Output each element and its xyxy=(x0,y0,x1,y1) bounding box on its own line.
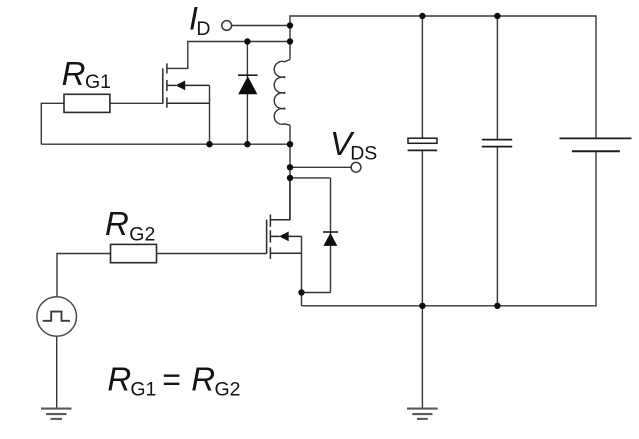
node: Q1 drain rail junction xyxy=(287,38,293,44)
wire C1 bottom lead xyxy=(421,150,423,305)
svg-text:D: D xyxy=(196,18,210,40)
node: C1 top rail junction xyxy=(419,13,425,19)
node: inductor bottom on mid rail xyxy=(287,141,293,147)
capacitor C2 xyxy=(482,140,512,147)
Q2 arrow head xyxy=(279,232,289,242)
transistor Q1 (high-side MOSFET) xyxy=(163,63,210,107)
wire top positive rail xyxy=(290,16,596,138)
node: C1 bottom rail junction xyxy=(419,303,425,309)
label VDS xyxy=(330,125,377,165)
label equation RG1 = RG2 xyxy=(107,360,240,400)
resistor RG2 xyxy=(111,244,157,262)
wire D2 anode to Q2 source node xyxy=(302,292,331,294)
node: C2 top rail junction xyxy=(494,13,500,19)
wire mid rail: switching node line xyxy=(41,143,290,145)
wire ID measurement lead xyxy=(232,25,290,27)
svg-text:R: R xyxy=(107,360,131,397)
wire Q1 drain up to rail xyxy=(167,42,290,69)
node: D2 branch junction xyxy=(287,175,293,181)
wire Q1 source down to mid rail xyxy=(209,85,211,144)
wire Q2 source down to bottom rail xyxy=(301,236,303,305)
node: Q1 source on mid rail xyxy=(206,141,212,147)
wire center ground lead xyxy=(421,306,423,408)
wire switching column (inductor bottom to Q2 drain corner) xyxy=(289,125,291,220)
svg-text:G2: G2 xyxy=(129,224,155,246)
wire pulse source to ground xyxy=(56,336,58,408)
ground (left, under pulse source) xyxy=(41,409,72,419)
svg-text:G1: G1 xyxy=(85,71,111,93)
diode D2 (Q2 body diode) xyxy=(323,178,338,293)
resistor RG1 xyxy=(64,94,110,112)
wire C1 top lead xyxy=(421,16,423,138)
wire RG2 left lead xyxy=(57,254,111,297)
svg-text:G2: G2 xyxy=(215,378,241,400)
ground (center, under bottom rail) xyxy=(407,409,438,419)
diode D1 (freewheeling diode) xyxy=(238,42,258,145)
svg-text:R: R xyxy=(62,55,86,92)
wire RG1 to Q1 gate xyxy=(110,102,163,104)
wire RG2 to Q2 gate xyxy=(157,253,267,255)
terminal VDS open circle xyxy=(351,162,361,172)
node: VDS tap junction xyxy=(287,164,293,170)
terminal ID open circle xyxy=(222,21,232,31)
label ID xyxy=(189,1,210,41)
svg-text:=: = xyxy=(162,361,181,397)
wire branch to D2 cathode xyxy=(290,177,331,179)
node: C2 bottom rail junction xyxy=(494,303,500,309)
svg-text:R: R xyxy=(105,205,129,242)
node: D1 anode on mid rail xyxy=(244,141,250,147)
capacitor C1 (electrolytic, boxed plate) xyxy=(408,138,438,150)
wire C2 bottom lead xyxy=(496,147,498,306)
svg-text:DS: DS xyxy=(350,143,377,165)
wire VDS measurement lead xyxy=(290,166,351,168)
svg-text:R: R xyxy=(191,360,215,397)
node: D1 cathode junction xyxy=(244,38,250,44)
svg-text:G1: G1 xyxy=(130,378,156,400)
battery V1 (DC link source) xyxy=(560,138,632,151)
label RG2 xyxy=(105,205,155,246)
node: ID tap junction xyxy=(287,22,293,28)
wire DC source negative plate to bottom rail xyxy=(302,152,597,306)
transistor Q2 (low-side MOSFET) xyxy=(267,178,302,259)
wire RG1 feedback: box left down to mid rail xyxy=(41,103,64,144)
inductor L1 xyxy=(274,60,290,126)
wire C2 top lead xyxy=(496,16,498,140)
label RG1 xyxy=(62,55,111,93)
pulse source V2 xyxy=(37,297,77,337)
Q1 arrow head xyxy=(176,81,186,91)
node: Q2 source / D2 anode junction xyxy=(298,289,304,295)
